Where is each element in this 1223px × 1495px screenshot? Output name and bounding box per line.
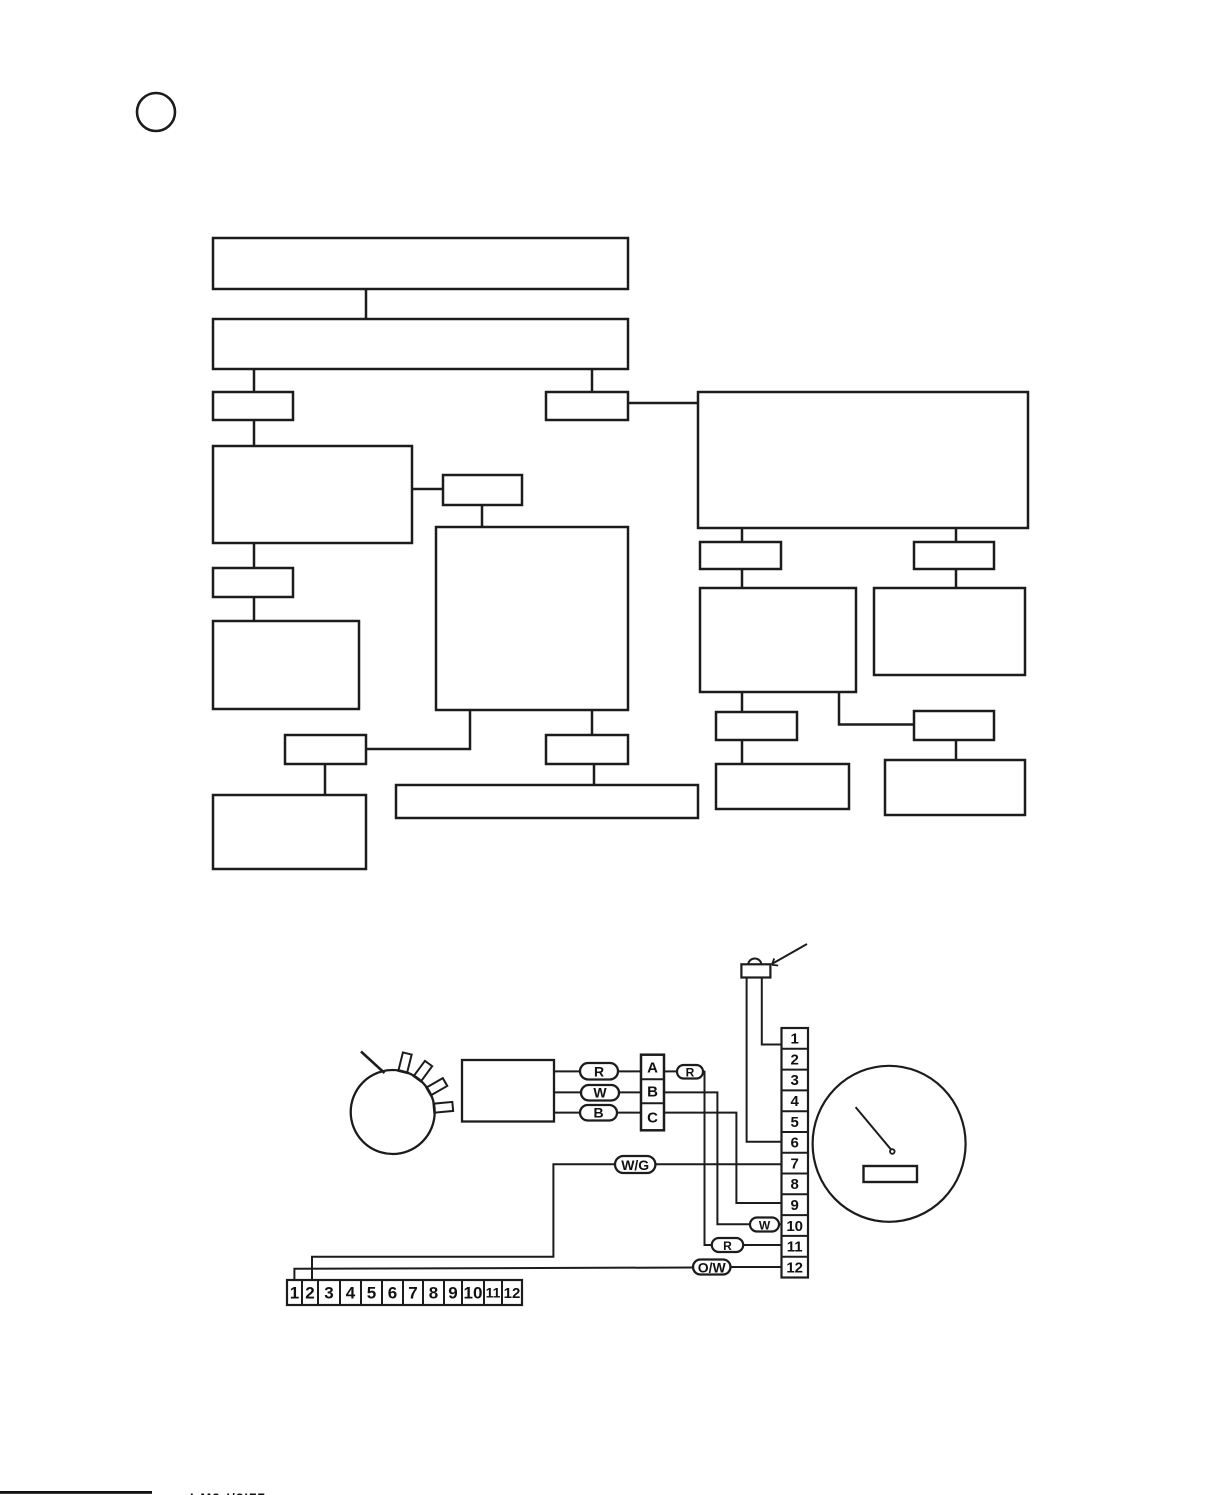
svg-text:11: 11 [486, 1285, 501, 1301]
svg-text:1: 1 [791, 1031, 799, 1048]
svg-text:A: A [647, 1060, 658, 1077]
svg-text:O/W: O/W [698, 1260, 727, 1276]
svg-text:6: 6 [791, 1135, 799, 1152]
svg-text:6: 6 [388, 1284, 397, 1303]
svg-text:W: W [593, 1085, 607, 1101]
svg-text:8: 8 [429, 1284, 438, 1303]
svg-text:B: B [593, 1105, 603, 1121]
svg-text:I-M2-I/2I77: I-M2-I/2I77 [190, 1490, 266, 1495]
svg-text:9: 9 [791, 1197, 799, 1214]
svg-text:3: 3 [791, 1072, 799, 1089]
svg-text:10: 10 [786, 1218, 803, 1235]
svg-text:1: 1 [290, 1284, 299, 1303]
svg-text:5: 5 [367, 1284, 376, 1303]
svg-text:R: R [723, 1239, 732, 1253]
svg-text:7: 7 [791, 1155, 799, 1172]
svg-text:4: 4 [791, 1093, 800, 1110]
svg-text:12: 12 [786, 1259, 803, 1276]
svg-text:W/G: W/G [621, 1157, 649, 1173]
svg-text:W: W [759, 1219, 771, 1233]
svg-text:10: 10 [464, 1284, 483, 1303]
svg-text:R: R [594, 1064, 604, 1080]
svg-text:9: 9 [448, 1284, 457, 1303]
svg-text:5: 5 [791, 1114, 799, 1131]
svg-text:R: R [686, 1066, 695, 1080]
svg-text:B: B [647, 1084, 658, 1101]
svg-text:7: 7 [408, 1284, 417, 1303]
svg-text:3: 3 [324, 1284, 333, 1303]
svg-text:8: 8 [791, 1176, 799, 1193]
svg-text:2: 2 [305, 1284, 314, 1303]
svg-text:C: C [647, 1110, 658, 1127]
svg-text:11: 11 [787, 1239, 803, 1256]
svg-text:2: 2 [791, 1051, 799, 1068]
svg-text:12: 12 [504, 1285, 521, 1302]
svg-text:4: 4 [346, 1284, 356, 1303]
